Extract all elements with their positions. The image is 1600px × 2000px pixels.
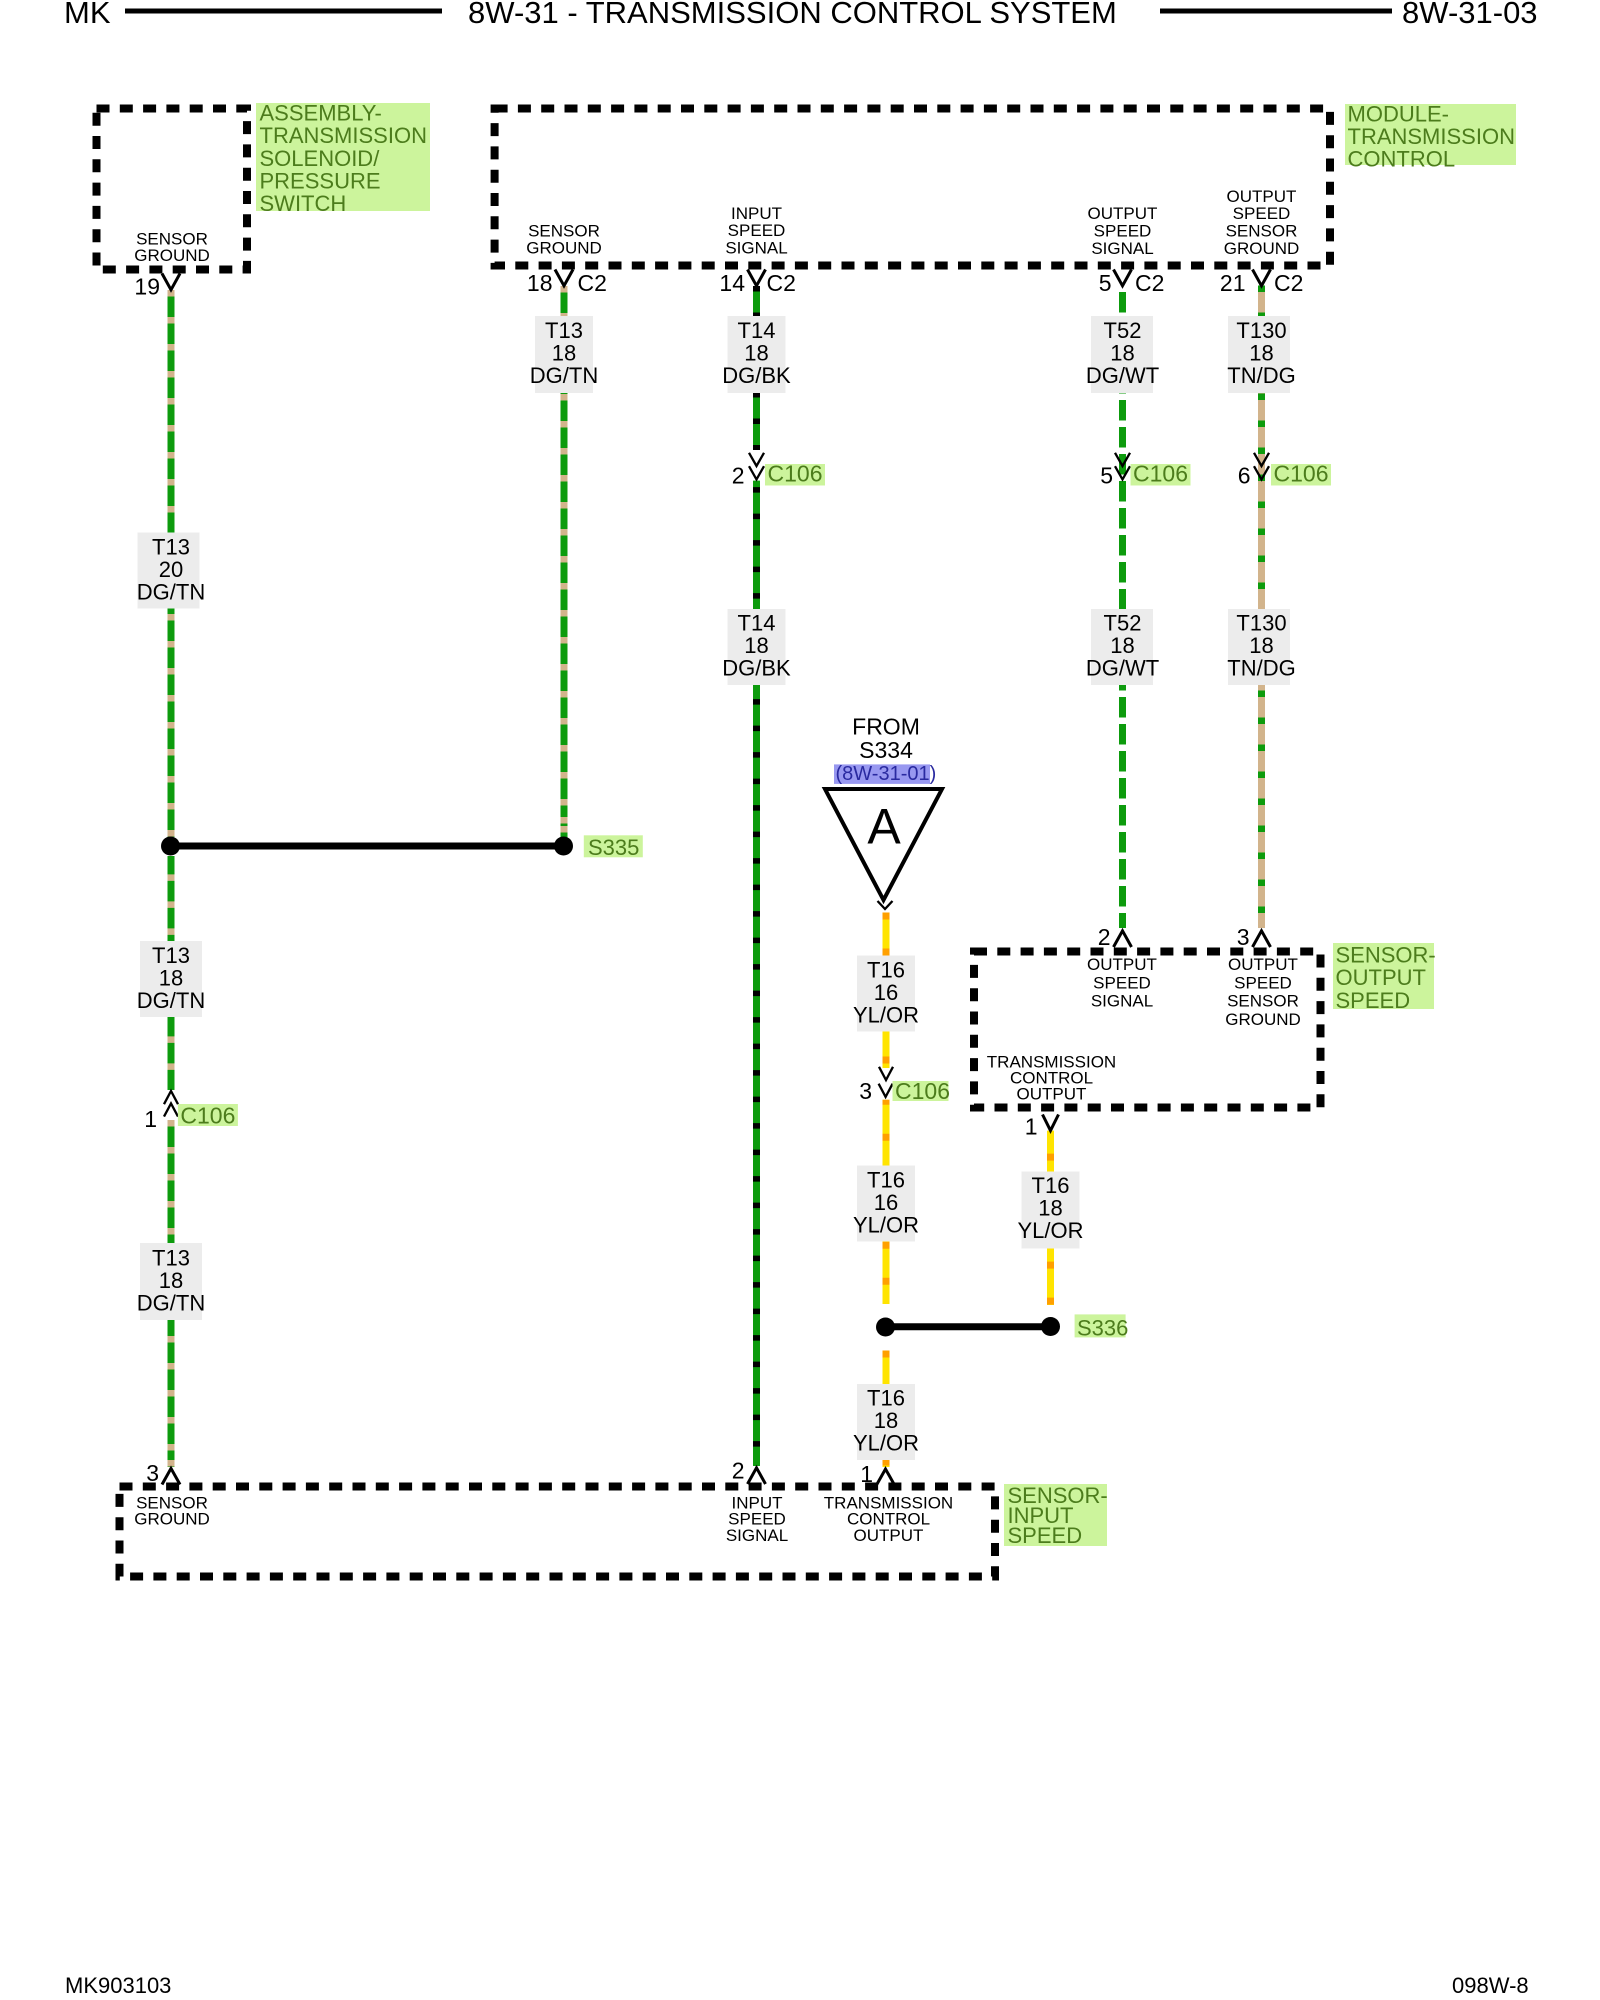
svg-text:SPEED: SPEED: [1336, 988, 1411, 1013]
splice S336 left junction dot: [876, 1318, 895, 1337]
pin 14 connector chevron: [748, 270, 766, 286]
svg-text:T14: T14: [738, 318, 776, 343]
svg-text:2: 2: [732, 462, 745, 488]
wire T14 18 DG/BK segment B (C106 to pin2): [753, 481, 760, 1466]
svg-text:C2: C2: [578, 270, 607, 296]
svg-text:T16: T16: [867, 1168, 905, 1193]
svg-text:C106: C106: [1274, 461, 1329, 487]
svg-text:18: 18: [1038, 1196, 1062, 1221]
svg-text:T16: T16: [867, 1386, 905, 1411]
svg-text:1: 1: [860, 1461, 873, 1487]
svg-text:18: 18: [1110, 633, 1134, 658]
wire T14 18 DG/BK segment A (module pin14 to C106): [753, 286, 760, 450]
svg-text:TRANSMISSION: TRANSMISSION: [260, 123, 427, 148]
svg-text:SOLENOID/: SOLENOID/: [260, 146, 381, 171]
wire T16 18 YL/OR segment C (S336 to pin1 of input speed sensor): [883, 1351, 890, 1468]
svg-text:18: 18: [744, 633, 768, 658]
splice S336 label: [1075, 1314, 1126, 1337]
svg-text:18: 18: [527, 270, 553, 296]
svg-text:T13: T13: [152, 1246, 190, 1271]
svg-text:5: 5: [1100, 462, 1113, 488]
svg-text:PRESSURE: PRESSURE: [260, 168, 381, 193]
svg-text:GROUND: GROUND: [134, 1510, 210, 1529]
svg-text:YL/OR: YL/OR: [853, 1213, 919, 1238]
wire T13 18 DG/TN segment B (S335 to C106): [168, 856, 175, 1090]
wire label T16 16 YL/OR (wire4 row2): [857, 1166, 915, 1242]
svg-text:A: A: [867, 799, 901, 855]
svg-text:OUTPUT: OUTPUT: [1336, 965, 1426, 990]
svg-text:INPUT: INPUT: [731, 204, 782, 223]
svg-text:T52: T52: [1104, 611, 1142, 636]
svg-text:2: 2: [1098, 924, 1111, 950]
pin 3 connector chevron: [1253, 931, 1271, 947]
pin 2 connector chevron: [1114, 931, 1132, 947]
svg-text:19: 19: [134, 274, 160, 300]
wire T13 tan tracer end cap (wire1 bottom): [168, 1460, 175, 1467]
svg-text:T13: T13: [152, 943, 190, 968]
wire T130 18 TN/DG (module pin21 to output speed sensor pin3): [1258, 286, 1265, 929]
svg-text:3: 3: [146, 1460, 159, 1486]
wire label T13 18 DG/TN (wire2 row1): [535, 316, 593, 393]
svg-text:SPEED: SPEED: [1093, 973, 1151, 992]
svg-text:SIGNAL: SIGNAL: [726, 1526, 788, 1545]
wire T13 tan tracer end cap (wire2 bottom): [561, 817, 568, 824]
svg-text:T16: T16: [867, 958, 905, 983]
svg-text:C106: C106: [768, 461, 823, 487]
off-page connector triangle A: [825, 789, 942, 900]
svg-text:ASSEMBLY-: ASSEMBLY-: [260, 101, 382, 126]
wire T13 20 DG/TN segment A (pin19 to S335): [168, 290, 175, 837]
svg-text:18: 18: [1249, 633, 1273, 658]
wire label T130 18 TN/DG (wire6 row1): [1228, 316, 1290, 393]
svg-text:SPEED: SPEED: [1234, 973, 1292, 992]
svg-text:YL/OR: YL/OR: [853, 1431, 919, 1456]
svg-text:3: 3: [859, 1078, 872, 1104]
svg-text:TN/DG: TN/DG: [1227, 656, 1295, 681]
connector C106 chevrons at wire4: [879, 1067, 893, 1080]
svg-text:14: 14: [719, 270, 745, 296]
svg-text:MODULE-: MODULE-: [1348, 102, 1449, 127]
svg-text:YL/OR: YL/OR: [853, 1003, 919, 1028]
svg-text:S335: S335: [588, 835, 639, 860]
wire label T13 18 DG/TN (wire1 row3): [140, 1243, 202, 1320]
svg-text:TN/DG: TN/DG: [1227, 363, 1295, 388]
wire T52 18 DG/WT (module pin5 to output speed sensor pin2): [1119, 286, 1126, 929]
svg-text:OUTPUT: OUTPUT: [1228, 955, 1298, 974]
connector C106 chevrons at wire1: [164, 1091, 178, 1104]
svg-text:DG/TN: DG/TN: [137, 1291, 205, 1316]
wire label T52 18 DG/WT (wire5 row1): [1091, 316, 1153, 393]
wire label T14 18 DG/BK (wire3 row2): [728, 609, 786, 685]
label MODULE-TRANSMISSION CONTROL: [1345, 104, 1516, 165]
svg-text:18: 18: [874, 1408, 898, 1433]
pin 21 connector chevron: [1253, 270, 1271, 286]
svg-text:18: 18: [1249, 341, 1273, 366]
component box MODULE-TRANSMISSION CONTROL: [495, 109, 1330, 266]
svg-text:T130: T130: [1236, 611, 1286, 636]
header rule left: [125, 9, 442, 14]
svg-text:MK903103: MK903103: [65, 1973, 171, 1998]
svg-text:21: 21: [1220, 270, 1246, 296]
wire label T52 18 DG/WT (wire5 row2): [1091, 609, 1153, 685]
svg-text:FROM: FROM: [852, 713, 920, 739]
svg-text:18: 18: [1110, 341, 1134, 366]
chevron below triangle A: [878, 901, 893, 909]
header rule right: [1160, 9, 1392, 14]
pin 19 connector chevron: [162, 274, 180, 290]
svg-text:C106: C106: [1133, 461, 1188, 487]
svg-text:OUTPUT: OUTPUT: [1227, 187, 1297, 206]
svg-text:T14: T14: [738, 611, 776, 636]
svg-text:C106: C106: [895, 1078, 950, 1104]
svg-text:DG/TN: DG/TN: [137, 988, 205, 1013]
svg-text:SPEED: SPEED: [1094, 222, 1152, 241]
svg-text:GROUND: GROUND: [526, 239, 602, 258]
svg-text:DG/TN: DG/TN: [530, 363, 598, 388]
splice S335 bus wire: [171, 843, 564, 850]
connector C106 label (wire5): [1131, 464, 1191, 486]
svg-text:8W-31-03: 8W-31-03: [1402, 0, 1538, 30]
svg-text:SENSOR: SENSOR: [1227, 992, 1299, 1011]
svg-text:098W-8: 098W-8: [1452, 1973, 1529, 1998]
pin 1 connector chevron: [877, 1469, 895, 1485]
svg-text:1: 1: [144, 1106, 157, 1132]
svg-text:18: 18: [552, 341, 576, 366]
svg-text:DG/BK: DG/BK: [722, 363, 791, 388]
svg-text:8W-31 - TRANSMISSION CONTROL S: 8W-31 - TRANSMISSION CONTROL SYSTEM: [468, 0, 1117, 30]
reference page (8W-31-01): [834, 764, 930, 784]
svg-text:SENSOR: SENSOR: [1226, 222, 1298, 241]
svg-text:TRANSMISSION: TRANSMISSION: [1348, 124, 1515, 149]
svg-text:20: 20: [159, 557, 183, 582]
svg-text:YL/OR: YL/OR: [1017, 1218, 1083, 1243]
label SENSOR-INPUT SPEED: [1004, 1484, 1107, 1546]
pin 2 connector chevron: [748, 1468, 766, 1484]
svg-text:GROUND: GROUND: [134, 246, 210, 265]
svg-text:SIGNAL: SIGNAL: [725, 239, 787, 258]
svg-text:OUTPUT: OUTPUT: [1087, 955, 1157, 974]
wire label T16 16 YL/OR (wire4 row1): [857, 956, 915, 1032]
svg-text:SENSOR-: SENSOR-: [1336, 943, 1436, 968]
svg-text:CONTROL: CONTROL: [1348, 147, 1456, 172]
svg-text:OUTPUT: OUTPUT: [1088, 204, 1158, 223]
svg-text:S336: S336: [1077, 1316, 1128, 1341]
svg-text:(8W-31-01): (8W-31-01): [836, 763, 937, 785]
svg-text:MK: MK: [64, 0, 111, 30]
svg-text:18: 18: [159, 966, 183, 991]
svg-text:18: 18: [159, 1268, 183, 1293]
svg-text:18: 18: [744, 341, 768, 366]
svg-text:DG/TN: DG/TN: [137, 580, 205, 605]
label ASSEMBLY-TRANSMISSION SOLENOID/PRESSURE SWITCH: [256, 103, 430, 211]
connector C106 label (wire6): [1271, 464, 1331, 486]
wire label T16 18 YL/OR (wire4 row3): [857, 1384, 915, 1460]
connector C106 chevrons at wire3: [749, 453, 764, 466]
svg-text:DG/WT: DG/WT: [1086, 656, 1159, 681]
component box ASSEMBLY-TRANSMISSION SOLENOID/PRESSURE SWITCH: [97, 109, 248, 270]
svg-text:T13: T13: [545, 318, 583, 343]
wire T16 16 YL/OR segment B (C106 to S336): [883, 1100, 890, 1304]
svg-text:T130: T130: [1236, 318, 1286, 343]
svg-text:T13: T13: [152, 535, 190, 560]
svg-text:SENSOR: SENSOR: [528, 221, 600, 240]
svg-text:T16: T16: [1032, 1173, 1070, 1198]
svg-text:GROUND: GROUND: [1224, 239, 1300, 258]
svg-text:SIGNAL: SIGNAL: [1091, 992, 1153, 1011]
svg-text:T52: T52: [1104, 318, 1142, 343]
connector C106 chevrons at wire5: [1115, 453, 1130, 466]
connector C106 label (wire1): [178, 1104, 238, 1126]
svg-text:SPEED: SPEED: [1233, 204, 1291, 223]
wire label T13 18 DG/TN (wire1 row2): [140, 941, 202, 1017]
svg-text:GROUND: GROUND: [1225, 1010, 1301, 1029]
svg-text:DG/WT: DG/WT: [1086, 363, 1159, 388]
wire label T16 18 YL/OR (wire4b): [1022, 1172, 1080, 1249]
splice S336 bus wire: [886, 1323, 1051, 1330]
splice S335 left junction dot: [161, 837, 180, 856]
svg-text:5: 5: [1099, 270, 1112, 296]
svg-text:SIGNAL: SIGNAL: [1091, 239, 1153, 258]
label SENSOR-OUTPUT SPEED: [1333, 943, 1434, 1009]
svg-text:C2: C2: [1274, 270, 1303, 296]
wire T16 16 YL/OR segment A (triangle A to C106): [883, 913, 890, 1069]
connector C106 label (wire4): [893, 1081, 949, 1101]
svg-text:C106: C106: [180, 1103, 235, 1129]
wire T16 18 YL/OR (output speed sensor pin1 to S336): [1047, 1131, 1054, 1305]
pin 1 connector chevron: [1043, 1115, 1059, 1131]
svg-text:SWITCH: SWITCH: [260, 191, 347, 216]
connector C106 label (wire3): [765, 464, 825, 486]
splice S335 right junction dot: [554, 837, 573, 856]
svg-text:DG/BK: DG/BK: [722, 656, 791, 681]
svg-text:C2: C2: [767, 270, 796, 296]
svg-text:SPEED: SPEED: [728, 221, 786, 240]
svg-text:3: 3: [1237, 924, 1250, 950]
svg-text:2: 2: [732, 1458, 745, 1484]
wire label T130 18 TN/DG (wire6 row2): [1228, 609, 1290, 685]
svg-text:S334: S334: [859, 737, 913, 763]
pin 18 connector chevron: [555, 270, 573, 286]
svg-text:16: 16: [874, 980, 898, 1005]
svg-text:OUTPUT: OUTPUT: [1017, 1085, 1087, 1104]
svg-text:16: 16: [874, 1190, 898, 1215]
wire label T14 18 DG/BK (wire3 row1): [728, 316, 786, 393]
svg-text:SPEED: SPEED: [1008, 1523, 1083, 1548]
splice S336 right junction dot: [1041, 1317, 1060, 1336]
svg-text:C2: C2: [1135, 270, 1164, 296]
svg-text:OUTPUT: OUTPUT: [854, 1526, 924, 1545]
splice S335 label: [584, 835, 643, 857]
svg-text:1: 1: [1025, 1114, 1038, 1140]
component box SENSOR-INPUT SPEED: [120, 1487, 996, 1577]
wire T13 18 DG/TN (module pin18 to S335): [561, 286, 568, 838]
pin 3 connector chevron: [162, 1468, 180, 1484]
wire label T13 20 DG/TN (wire1): [138, 533, 200, 609]
component box SENSOR-OUTPUT SPEED: [974, 952, 1321, 1108]
svg-text:6: 6: [1238, 462, 1251, 488]
connector C106 chevrons at wire6: [1254, 453, 1269, 466]
pin 5 connector chevron: [1114, 270, 1132, 286]
wire T13 18 DG/TN segment C (C106 to pin3): [168, 1120, 175, 1467]
